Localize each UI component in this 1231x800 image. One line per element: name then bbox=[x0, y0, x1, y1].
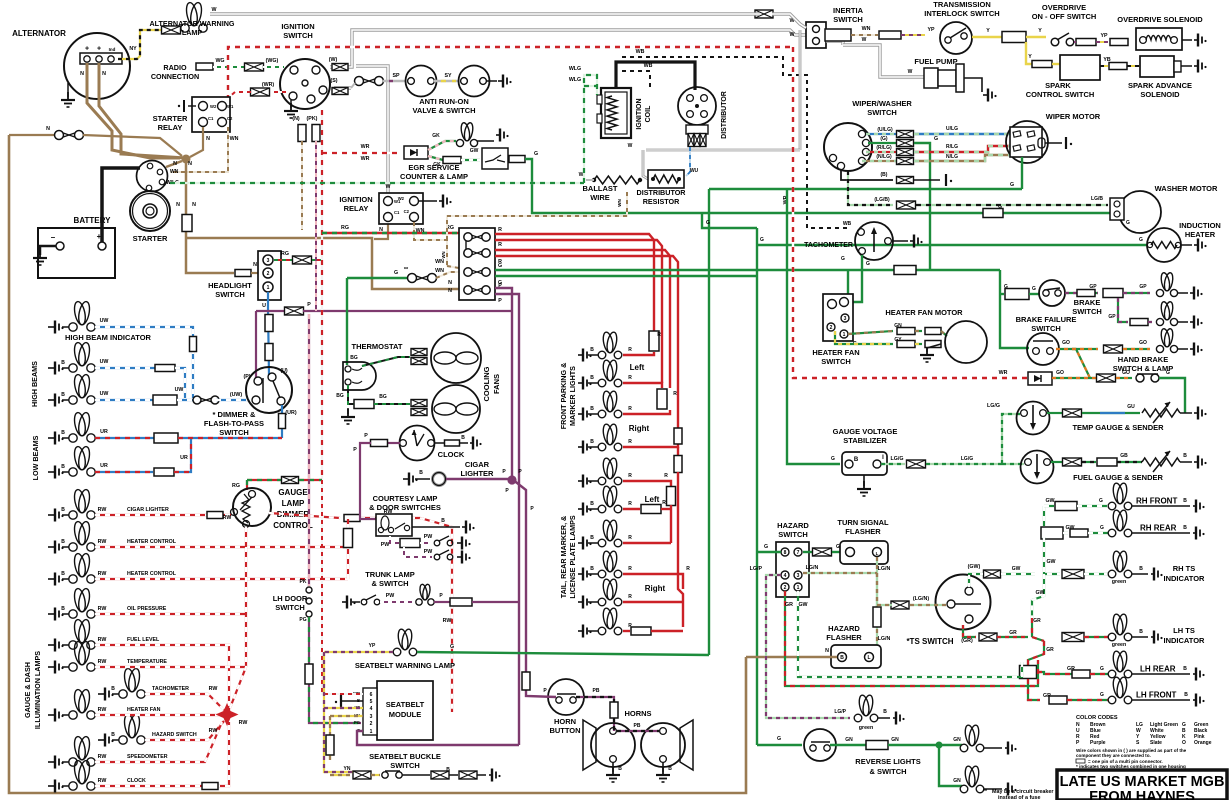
ground spark advance bbox=[1181, 65, 1192, 67]
wire SP anti run-on feed bbox=[334, 86, 351, 89]
wire GW riser bbox=[1044, 537, 1060, 574]
svg-text:GP: GP bbox=[1108, 314, 1116, 320]
wire R row 509 bbox=[623, 508, 640, 510]
svg-text:G: G bbox=[866, 261, 870, 267]
wire G seatbelt bbox=[417, 652, 709, 655]
svg-text:B: B bbox=[590, 535, 594, 541]
svg-text:HAZARD: HAZARD bbox=[777, 521, 809, 530]
node RW star junction bbox=[216, 703, 239, 726]
svg-text:G: G bbox=[1010, 182, 1014, 188]
distributor bbox=[678, 87, 716, 125]
wire PK down bbox=[315, 141, 317, 311]
wire GN lamp2 bbox=[939, 745, 962, 786]
lamp row 472 bbox=[48, 466, 64, 479]
ground tachometer bbox=[892, 240, 908, 242]
EGR lamp bbox=[456, 122, 477, 147]
connector P bbox=[285, 307, 304, 315]
svg-text:4: 4 bbox=[370, 706, 373, 712]
svg-text:N: N bbox=[46, 126, 50, 132]
svg-text:HEATER: HEATER bbox=[1185, 230, 1216, 239]
svg-text:N: N bbox=[448, 288, 452, 294]
svg-text:HEADLIGHT: HEADLIGHT bbox=[208, 281, 252, 290]
wire P module bbox=[357, 731, 519, 745]
svg-text:B: B bbox=[61, 507, 65, 513]
wire B wiper bbox=[841, 170, 893, 180]
wire G step bbox=[702, 213, 757, 228]
wire coil HT black bbox=[616, 62, 695, 90]
svg-text:CONTROL: CONTROL bbox=[273, 521, 313, 530]
wire red dashed ignition feed top bbox=[228, 47, 793, 100]
wire RW cigar lighter row bbox=[95, 514, 231, 516]
wire B rh ts bbox=[1132, 573, 1148, 575]
svg-text:GB: GB bbox=[1120, 453, 1128, 459]
svg-text:STARTER: STARTER bbox=[153, 114, 188, 123]
svg-text:PB: PB bbox=[593, 688, 600, 694]
svg-text:MARKER LIGHTS: MARKER LIGHTS bbox=[568, 366, 577, 426]
wire B lh ts bbox=[1132, 636, 1148, 638]
wire UW to dimmer bbox=[177, 399, 194, 401]
svg-text:IGNITION: IGNITION bbox=[636, 98, 643, 129]
svg-text:Left: Left bbox=[645, 495, 660, 504]
wire GO to switch bbox=[1052, 377, 1096, 379]
marker lamp 447 bbox=[578, 441, 592, 454]
wire PB horns bbox=[617, 730, 659, 732]
connector GR ts bbox=[979, 633, 997, 641]
ground anti run-on bbox=[487, 80, 497, 82]
svg-text:RG: RG bbox=[341, 225, 349, 231]
svg-text:P: P bbox=[353, 447, 357, 453]
svg-text:BG: BG bbox=[379, 394, 387, 400]
wire G trunk v1 bbox=[708, 189, 710, 655]
svg-text:WB: WB bbox=[843, 221, 852, 227]
svg-text:B: B bbox=[61, 464, 65, 470]
wire R pair 2 bbox=[495, 250, 670, 388]
lamp row TACHOMETER bbox=[98, 688, 114, 701]
ground alternator bbox=[67, 83, 69, 97]
wire PB down bbox=[613, 718, 615, 731]
connector G brake bbox=[1005, 289, 1029, 300]
svg-text:G: G bbox=[1099, 498, 1103, 504]
EGR diode bbox=[404, 146, 428, 159]
svg-text:(UW): (UW) bbox=[230, 392, 243, 398]
connector G mid bbox=[894, 266, 916, 275]
wire GR from TS bbox=[963, 625, 976, 637]
trunk bulb bbox=[416, 584, 434, 606]
svg-text:HIGH BEAMS: HIGH BEAMS bbox=[30, 361, 39, 407]
gauge lamp dimmer control bbox=[233, 488, 271, 526]
connector B buckle 1 bbox=[431, 771, 449, 779]
svg-text:OVERDRIVE: OVERDRIVE bbox=[1042, 3, 1086, 12]
connector YN bbox=[353, 771, 371, 779]
wire UR lb1 bbox=[95, 437, 155, 439]
svg-text:ON - OFF SWITCH: ON - OFF SWITCH bbox=[1032, 12, 1097, 21]
wire white W ignition to inertia bbox=[330, 30, 808, 67]
ground horn2 bbox=[662, 762, 664, 772]
wire G flasher bbox=[803, 551, 812, 553]
svg-text:FUEL GAUGE & SENDER: FUEL GAUGE & SENDER bbox=[1073, 473, 1163, 482]
svg-text:3: 3 bbox=[370, 714, 373, 720]
wire WR module bbox=[322, 480, 363, 694]
svg-text:W: W bbox=[386, 184, 391, 190]
svg-text:SPEEDOMETER: SPEEDOMETER bbox=[127, 754, 168, 760]
wire GR hazard down bbox=[785, 591, 1038, 686]
connector YB bbox=[1109, 63, 1127, 70]
wire R row 574 bbox=[623, 574, 683, 589]
wire N to junction bbox=[83, 135, 182, 156]
svg-text:RW: RW bbox=[209, 686, 218, 692]
svg-text:B: B bbox=[590, 566, 594, 572]
svg-text:STABILIZER: STABILIZER bbox=[843, 436, 887, 445]
svg-text:GW: GW bbox=[798, 602, 807, 608]
svg-text:ANTI RUN-ON: ANTI RUN-ON bbox=[419, 97, 469, 106]
ground BG bbox=[347, 408, 349, 414]
marker lamp 574 bbox=[578, 568, 592, 581]
svg-text:CONNECTION: CONNECTION bbox=[151, 72, 199, 81]
wire BG fan1 bbox=[362, 357, 410, 366]
svg-text:B: B bbox=[61, 430, 65, 436]
svg-text:B: B bbox=[61, 606, 65, 612]
svg-text:INDUCTION: INDUCTION bbox=[1179, 221, 1221, 230]
wire G pair bbox=[495, 269, 1000, 271]
svg-text:B: B bbox=[590, 347, 594, 353]
svg-text:B: B bbox=[1183, 498, 1187, 504]
wire G handbrake bbox=[1159, 378, 1185, 413]
wire N frame loop bbox=[9, 135, 746, 793]
ground trunk bbox=[342, 596, 356, 609]
wire PK door bbox=[308, 314, 310, 586]
svg-text:U/LG: U/LG bbox=[946, 126, 958, 132]
svg-text:SPARK: SPARK bbox=[1045, 81, 1071, 90]
ground brake lamp1 bbox=[1177, 292, 1188, 294]
svg-text:N: N bbox=[173, 161, 177, 167]
svg-text:G: G bbox=[1139, 237, 1143, 243]
svg-text:N: N bbox=[448, 280, 452, 286]
svg-text:B: B bbox=[61, 571, 65, 577]
connector RW clock bbox=[202, 783, 218, 790]
svg-text:LG/P: LG/P bbox=[750, 566, 763, 572]
svg-text:FLASHER: FLASHER bbox=[826, 633, 862, 642]
trunk switch bbox=[361, 599, 367, 605]
svg-text:(GW): (GW) bbox=[968, 564, 981, 570]
connector LGN bbox=[891, 601, 909, 609]
wire RW speedometer bbox=[95, 722, 222, 762]
spark control switch bbox=[1052, 63, 1060, 65]
svg-text:B: B bbox=[61, 360, 65, 366]
svg-text:B: B bbox=[668, 766, 672, 772]
fuse R4 bbox=[667, 487, 676, 506]
svg-text:INTERLOCK SWITCH: INTERLOCK SWITCH bbox=[924, 9, 999, 18]
wire U headlight down bbox=[268, 292, 269, 375]
wire P trunk bbox=[434, 601, 450, 603]
clock bbox=[400, 426, 435, 461]
fuse U2 bbox=[265, 344, 273, 361]
svg-text:INDICATOR: INDICATOR bbox=[1164, 574, 1206, 583]
lamp row HIGH BEAM INDICATOR bbox=[48, 321, 64, 334]
svg-text:W: W bbox=[628, 143, 633, 149]
connector RG bbox=[293, 256, 312, 264]
marker lamp 383 bbox=[578, 377, 592, 390]
svg-text:(PK): (PK) bbox=[307, 116, 318, 122]
svg-text:GN: GN bbox=[953, 737, 961, 743]
bullet UW bbox=[193, 396, 219, 404]
svg-text:SEATBELT: SEATBELT bbox=[386, 700, 425, 709]
wire YP module bbox=[324, 652, 360, 772]
svg-text:SOLENOID: SOLENOID bbox=[1140, 90, 1180, 99]
svg-text:SEATBELT WARNING LAMP: SEATBELT WARNING LAMP bbox=[355, 661, 455, 670]
wire GR lh front bbox=[1028, 679, 1040, 700]
svg-text:B: B bbox=[1183, 453, 1187, 459]
svg-text:COURTESY LAMP: COURTESY LAMP bbox=[373, 494, 438, 503]
svg-text:GAUGE VOLTAGE: GAUGE VOLTAGE bbox=[833, 427, 898, 436]
fuse U1 bbox=[265, 315, 273, 332]
svg-text:(U/LG): (U/LG) bbox=[877, 127, 893, 133]
lamp row HEATER CONTROL bbox=[48, 541, 64, 554]
wire RW dimmer bottom riser bbox=[245, 527, 247, 667]
fuse LGN bbox=[873, 607, 881, 627]
svg-text:GO: GO bbox=[1139, 340, 1147, 346]
connector GB2 bbox=[1097, 458, 1117, 466]
svg-text:Purple: Purple bbox=[1090, 740, 1106, 746]
wire R pair 1 bbox=[495, 234, 654, 347]
svg-text:W2: W2 bbox=[398, 196, 405, 201]
svg-text:SWITCH: SWITCH bbox=[390, 761, 420, 770]
svg-text:PG: PG bbox=[299, 617, 306, 623]
wire P cigar junction down bbox=[512, 479, 526, 668]
svg-text:RW: RW bbox=[223, 515, 232, 521]
svg-text:SWITCH: SWITCH bbox=[821, 357, 851, 366]
wire R row 355 bbox=[623, 352, 654, 355]
connector P clock bbox=[371, 440, 388, 447]
svg-text:WN: WN bbox=[862, 26, 871, 32]
svg-text:L: L bbox=[876, 551, 879, 556]
wire G wiper down bbox=[914, 143, 930, 270]
wire GR riser top bbox=[1031, 618, 1033, 637]
svg-text:SPARK ADVANCE: SPARK ADVANCE bbox=[1128, 81, 1192, 90]
svg-text:G: G bbox=[1032, 286, 1036, 292]
svg-text:B: B bbox=[840, 655, 844, 661]
connector GP bbox=[1103, 289, 1123, 298]
svg-text:RW: RW bbox=[98, 606, 107, 612]
svg-text:GW: GW bbox=[470, 148, 479, 154]
svg-text:U: U bbox=[262, 303, 266, 309]
svg-text:PW: PW bbox=[386, 593, 395, 599]
connector G washer bbox=[983, 209, 1003, 218]
wire B rh rear bbox=[1132, 532, 1190, 534]
svg-text:GO: GO bbox=[1062, 340, 1070, 346]
svg-text:UW: UW bbox=[100, 391, 109, 397]
svg-text:P: P bbox=[498, 298, 502, 304]
svg-text:RG: RG bbox=[232, 483, 240, 489]
svg-text:UW: UW bbox=[100, 318, 109, 324]
svg-text:C1: C1 bbox=[394, 210, 400, 215]
fuse UW bbox=[190, 337, 197, 352]
lamp row HEATER FAN bbox=[48, 709, 64, 722]
fuse PG bbox=[305, 664, 313, 684]
svg-text:RW: RW bbox=[98, 571, 107, 577]
svg-text:OIL PRESSURE: OIL PRESSURE bbox=[127, 606, 167, 612]
svg-text:SWITCH: SWITCH bbox=[867, 108, 897, 117]
svg-text:GO: GO bbox=[1122, 370, 1130, 376]
svg-text:R: R bbox=[628, 439, 632, 445]
svg-text:WLG: WLG bbox=[569, 77, 581, 83]
svg-text:2: 2 bbox=[267, 271, 270, 277]
marker lamp 509 bbox=[578, 503, 592, 516]
svg-text:GR: GR bbox=[1009, 630, 1017, 636]
wire SY bbox=[434, 80, 459, 82]
connector GN bbox=[866, 741, 888, 750]
connector YP bbox=[1110, 39, 1128, 46]
svg-text:GR: GR bbox=[785, 602, 793, 608]
wire GO lamp3 bbox=[1056, 349, 1090, 378]
wire N junction down bbox=[186, 162, 234, 273]
connector GO bbox=[1104, 345, 1123, 353]
svg-text:HAZARD: HAZARD bbox=[828, 624, 860, 633]
svg-text:LG/G: LG/G bbox=[891, 456, 904, 462]
svg-text:P: P bbox=[364, 433, 368, 439]
connector WN2 bbox=[879, 31, 901, 39]
wire LGN flasher bbox=[876, 557, 878, 645]
svg-text:R: R bbox=[686, 566, 690, 572]
svg-text:FLASHER: FLASHER bbox=[845, 527, 881, 536]
svg-text:B: B bbox=[111, 686, 115, 692]
svg-text:RELAY: RELAY bbox=[344, 204, 369, 213]
svg-text:HEATER FAN: HEATER FAN bbox=[812, 348, 859, 357]
anti run-on switch bbox=[459, 66, 490, 97]
svg-text:2: 2 bbox=[370, 721, 373, 727]
connector GU bbox=[1063, 409, 1082, 417]
svg-text:B: B bbox=[618, 766, 622, 772]
svg-text:GN: GN bbox=[845, 737, 853, 743]
connector W top bbox=[755, 10, 773, 18]
wire UW hb1 bbox=[95, 367, 155, 369]
svg-text:B: B bbox=[461, 435, 465, 441]
svg-text:WB: WB bbox=[644, 63, 653, 69]
ground brake lamp2 bbox=[1177, 321, 1188, 323]
svg-text:RADIO: RADIO bbox=[163, 63, 187, 72]
wire WR vertical bbox=[793, 47, 1028, 378]
svg-text:WN: WN bbox=[441, 252, 446, 259]
svg-text:TAIL, REAR MARKER, &: TAIL, REAR MARKER, & bbox=[559, 516, 568, 599]
svg-text:G: G bbox=[764, 544, 768, 550]
svg-text:LICENSE PLATE LAMPS: LICENSE PLATE LAMPS bbox=[568, 515, 577, 599]
ground door2 bbox=[457, 551, 471, 564]
fuel gauge bbox=[1021, 451, 1054, 484]
wire RG drop bbox=[246, 480, 248, 490]
wire GP 2 bbox=[1118, 298, 1128, 322]
ground hand brake lamp bbox=[1177, 348, 1188, 350]
svg-text:CLOCK: CLOCK bbox=[127, 778, 146, 784]
connector UR lb1 bbox=[154, 433, 178, 443]
ground rh rear bbox=[1193, 527, 1205, 540]
svg-text:R: R bbox=[628, 473, 632, 479]
svg-text:G: G bbox=[706, 220, 710, 226]
ground clock bbox=[470, 437, 482, 450]
svg-text:B: B bbox=[883, 709, 887, 715]
svg-text:GR: GR bbox=[1046, 647, 1054, 653]
wire G stabilizer feed bbox=[787, 189, 840, 464]
svg-text:green: green bbox=[1112, 642, 1126, 648]
svg-text:W1: W1 bbox=[227, 104, 234, 109]
wire N branch to bus bbox=[186, 238, 459, 289]
wire GB bbox=[1051, 461, 1062, 463]
wire NLG bbox=[862, 160, 896, 162]
lamp row 400 bbox=[48, 394, 64, 407]
svg-text:W: W bbox=[790, 32, 795, 38]
svg-text:G: G bbox=[1126, 220, 1130, 226]
wire GK counter bbox=[428, 156, 443, 160]
svg-text:Slate: Slate bbox=[1150, 740, 1162, 746]
svg-text:G: G bbox=[450, 644, 454, 650]
svg-text:B: B bbox=[1183, 525, 1187, 531]
svg-text:FUEL PUMP: FUEL PUMP bbox=[914, 57, 957, 66]
connector G flasher bbox=[813, 548, 832, 556]
wire GW counter bbox=[461, 159, 480, 161]
wire N ignition down bbox=[301, 141, 303, 230]
svg-text:N: N bbox=[825, 648, 829, 654]
svg-text:+: + bbox=[97, 46, 101, 53]
svg-text:(UR): (UR) bbox=[285, 410, 296, 416]
svg-text:HORN: HORN bbox=[554, 717, 576, 726]
svg-text:SY: SY bbox=[444, 73, 452, 79]
svg-text:CIGAR: CIGAR bbox=[465, 460, 490, 469]
wire G wiper motor bbox=[1021, 157, 1023, 189]
wire link pins bbox=[465, 241, 467, 249]
wire WLG trunk bbox=[170, 182, 584, 184]
svg-text:*TS SWITCH: *TS SWITCH bbox=[906, 637, 953, 646]
svg-text:N: N bbox=[176, 202, 180, 208]
svg-text:BUTTON: BUTTON bbox=[549, 726, 580, 735]
svg-text:COUNTER & LAMP: COUNTER & LAMP bbox=[400, 172, 468, 181]
cooling fan 2 bbox=[411, 400, 427, 407]
wire WN ignition relay bbox=[414, 222, 447, 266]
svg-text:(W): (W) bbox=[329, 57, 338, 63]
svg-text:R: R bbox=[673, 391, 677, 397]
svg-text:6: 6 bbox=[370, 692, 373, 698]
svg-text:SEATBELT BUCKLE: SEATBELT BUCKLE bbox=[369, 752, 441, 761]
svg-text:CLOCK: CLOCK bbox=[438, 450, 465, 459]
ground ignition switch bbox=[290, 100, 292, 108]
buckle switch bbox=[382, 772, 388, 778]
svg-text:LIGHTER: LIGHTER bbox=[461, 469, 494, 478]
ground reverse lamp1 bbox=[1005, 742, 1017, 755]
wire R row 447 bbox=[623, 440, 678, 447]
svg-text:R: R bbox=[628, 594, 632, 600]
ground fuel sender bbox=[1180, 461, 1192, 463]
lamp row CLOCK bbox=[48, 780, 64, 793]
svg-text:(U): (U) bbox=[280, 368, 288, 374]
fuse YN bbox=[326, 735, 334, 755]
svg-text:GO: GO bbox=[1056, 370, 1064, 376]
connector G EGR bbox=[509, 156, 525, 163]
svg-text:GN: GN bbox=[891, 737, 899, 743]
svg-text:W2: W2 bbox=[210, 104, 217, 109]
svg-text:PW: PW bbox=[381, 542, 390, 548]
svg-text:**: ** bbox=[983, 789, 987, 795]
wire P pair bbox=[495, 288, 512, 479]
connector warning lamp bbox=[162, 26, 181, 34]
wire RLG bbox=[866, 151, 896, 153]
wire WN starter relay C2 bbox=[170, 127, 228, 172]
wire G wiper bbox=[868, 142, 896, 144]
svg-text:CONTROL SWITCH: CONTROL SWITCH bbox=[1026, 90, 1095, 99]
connector GB bbox=[1063, 458, 1082, 466]
lamp row HEATER CONTROL bbox=[48, 573, 64, 586]
svg-text:(LG/B): (LG/B) bbox=[874, 197, 890, 203]
marker lamp 481 bbox=[578, 475, 592, 488]
svg-text:LH REAR: LH REAR bbox=[1140, 665, 1176, 674]
svg-text:R: R bbox=[664, 473, 668, 479]
wire G EGR down bbox=[525, 159, 702, 213]
